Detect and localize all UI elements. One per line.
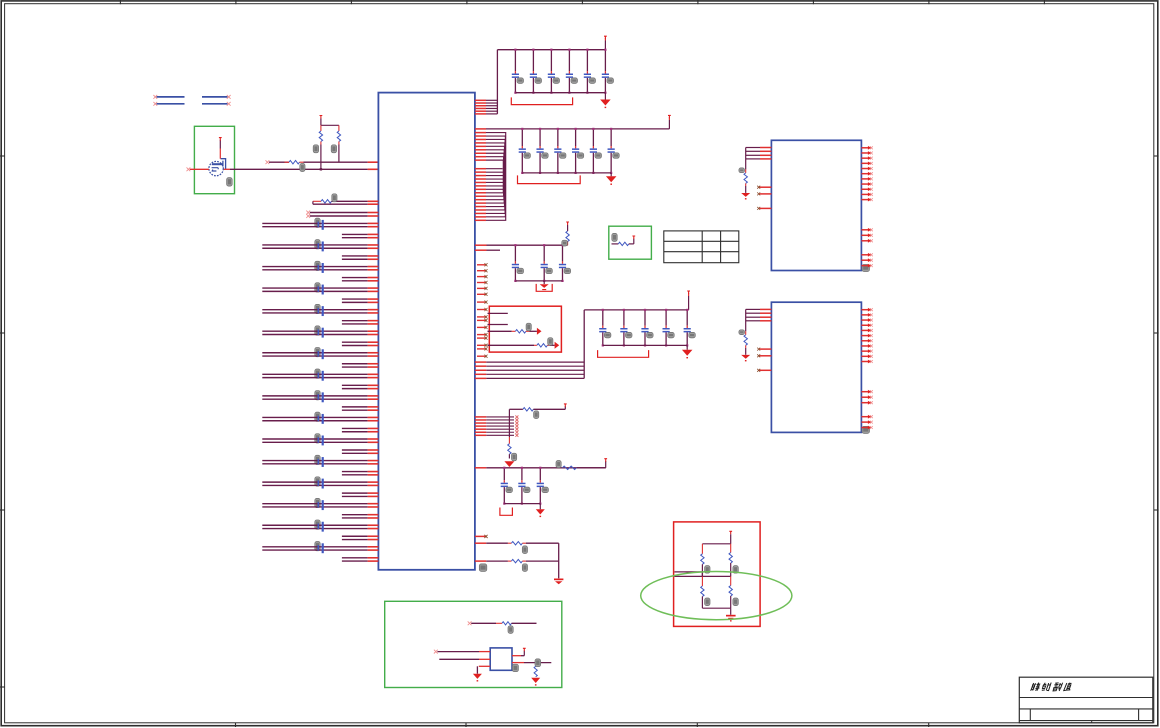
wire short pair Q14 to IC (342, 515, 379, 518)
ground symbol (bar style) (554, 579, 563, 581)
cap bank 4 top bus (584, 309, 688, 311)
red group bracket bank1 (511, 97, 572, 104)
capacitor C16 (bank1) (602, 49, 614, 94)
termination riser wire U2 (745, 148, 747, 170)
wire pair P12 to IC (differential) (262, 461, 378, 464)
left edge zone ticks (0, 156, 5, 687)
pin tick R pair supply (320, 116, 323, 119)
wire R1 to IC pin (net B) (304, 161, 368, 163)
ground arrow bank1 (604, 93, 606, 100)
series capacitor C8 on pair P8 (318, 371, 324, 381)
pin tick R8 net (564, 404, 567, 407)
wire short pair Q16 to IC (342, 558, 379, 561)
ground arrow R14 (531, 678, 540, 683)
wire bundle IC to cap bank 1 (475, 100, 498, 114)
wire short pair Q15 to IC (342, 536, 379, 539)
designator blob C13 (315, 477, 320, 486)
wire with resistor R12 to gnd rail (475, 560, 486, 562)
wire supply to resistor bus (320, 119, 322, 126)
wire supply to divider bus (730, 534, 732, 544)
designator blob C4 (315, 283, 320, 292)
ground arrow termination U2 (741, 193, 750, 197)
wire short pair Q2 to IC (342, 256, 379, 259)
ground bracket with arrow bank3 (543, 281, 545, 284)
series capacitor C16 on pair P16 (318, 543, 324, 553)
pin tick Q1 drain (219, 138, 222, 141)
capacitor C23 (bank2) (554, 128, 566, 174)
wire strap stub 1 (488, 312, 508, 314)
capacitor C12 (bank1) (530, 49, 542, 94)
capacitor C44 (bank4) (663, 309, 675, 347)
designator blob R12 (522, 564, 527, 572)
U2 right pin stubs group 2 (861, 228, 872, 243)
wire Q1 to IC pin (net A) (224, 168, 230, 170)
U3 right pin stubs group 1 (861, 308, 872, 364)
capacitor C25 (bank2) (590, 128, 602, 174)
red highlight box (divider network) (674, 522, 761, 627)
title block frame (1019, 677, 1153, 723)
designator blob C5 (315, 304, 320, 313)
U2 right pin stubs group 1 (861, 146, 872, 202)
capacitor C51 (bank5) (501, 467, 513, 505)
divider top bus (702, 543, 730, 545)
wire pair P5 to IC (differential) (262, 310, 378, 313)
designator blob Q1 (227, 178, 233, 187)
wire resistor R8 row to pin (509, 408, 523, 410)
designator blob R8 (534, 411, 539, 419)
series capacitor C13 on pair P13 (318, 479, 324, 489)
capacitor C21 (bank2) (519, 128, 531, 174)
red group bracket bank2 (518, 175, 581, 183)
top edge zone ticks (120, 0, 1044, 4)
wire with series resistor loopback (top left pair) (313, 200, 321, 202)
wire X1 out to pin (512, 655, 521, 657)
wire pair P13 to IC (differential) (262, 482, 378, 485)
capacitor C11 (bank1) (512, 49, 524, 94)
bank4 left riser wire (583, 310, 585, 379)
cap bank 1 bottom bus (515, 92, 605, 94)
wire short pair Q13 to IC (342, 493, 379, 496)
cap bank 2 bottom bus (522, 172, 611, 174)
wire short pair Q6 to IC (342, 342, 379, 345)
green highlight box around resistor R5 (609, 226, 652, 259)
wire bank2 bus to supply pin (668, 120, 670, 129)
resistor R16 upper-right (730, 544, 732, 553)
capacitor C26 (bank2) (608, 128, 620, 174)
resistor R18 lower-right (730, 576, 732, 585)
designator blob C15 (315, 520, 320, 529)
title block cell divider left (1029, 709, 1031, 721)
designator blob C11 (315, 434, 320, 443)
series capacitor C7 on pair P7 (318, 349, 324, 359)
wire to X1 input 2 (439, 658, 479, 660)
wire pair P15 to IC (differential) (262, 525, 378, 528)
wire short pair Q1 to IC (342, 234, 379, 237)
wire short pair Q12 to IC (342, 472, 379, 475)
capacitor C32 (bank3) (541, 244, 553, 282)
IC U3 body (771, 302, 861, 432)
series capacitor C15 on pair P15 (318, 522, 324, 532)
U3 left pin stubs (757, 348, 771, 372)
designator blob U3 (862, 426, 870, 433)
wire with resistor R11 to gnd rail (475, 542, 486, 544)
wire strap with resistor R6 and arrow (488, 330, 512, 332)
connection table (3x3) (664, 231, 739, 263)
U3 right pin stubs group 3 (861, 415, 872, 430)
wire port to R1 (net B) (269, 161, 289, 163)
wire short pair Q3 to IC (342, 278, 379, 281)
ground arrow bank2 (610, 173, 612, 176)
wire pair P6 to IC (differential) (262, 331, 378, 334)
resistor R17 lower-left (701, 576, 703, 586)
wire group to cap bank 4 (5 nets) (475, 362, 584, 378)
designator blob C1 (315, 218, 320, 227)
port x-mark left b (153, 102, 157, 106)
capacitor C31 (bank3) (512, 244, 524, 282)
port connector pair left (blue) (157, 96, 185, 98)
designator blob R11 (522, 546, 527, 554)
cap bank 3 bottom bus (515, 280, 562, 282)
title block row line 2 (1019, 708, 1153, 710)
designator blob R2 (313, 145, 318, 153)
capacitor C42 (bank4) (620, 309, 632, 347)
series capacitor C10 on pair P10 (318, 414, 324, 424)
resistor R15 upper-left (701, 544, 703, 554)
wire pair P1 to IC (differential) (262, 223, 378, 226)
resistor R14 vertical (534, 666, 537, 677)
designator blob U2 (862, 265, 870, 272)
wire pair P7 to IC (differential) (262, 353, 378, 356)
right edge zone ticks (1154, 156, 1159, 510)
port x-mark net B (266, 160, 270, 164)
wire pair P3 to IC (differential) (262, 267, 378, 270)
title block row line 3 (1019, 720, 1153, 722)
wire pair P16 to IC (differential) (262, 547, 378, 550)
wire pair P10 to IC (differential) (262, 417, 378, 420)
wire short pair Q7 to IC (342, 364, 379, 367)
designator blob R1 (300, 164, 305, 172)
capacitor C41 (bank4) (599, 309, 611, 347)
pin tick R10 net (604, 459, 607, 462)
capacitor C53 (bank5) (537, 467, 549, 505)
junction R2 on net A (320, 168, 322, 170)
designator blob R15 (705, 566, 710, 574)
capacitor C22 (bank2) (536, 128, 548, 174)
red group bracket bank5 (500, 508, 513, 516)
divider mid tap wire (674, 571, 702, 573)
designator blob R3 (331, 145, 336, 153)
designator blob R5 (612, 233, 617, 241)
designator blob C6 (315, 326, 320, 335)
port connector pair right (blue) (202, 96, 228, 98)
IC bundle rows to pulldown (7 pins) (475, 415, 519, 436)
wire short pair Q5 to IC (342, 321, 379, 324)
title block row line 1 (1019, 697, 1153, 699)
designator blob R9 (512, 453, 517, 461)
designator blob C7 (315, 347, 320, 356)
wire short pair with ports (x marks) (310, 212, 368, 214)
series capacitor C4 on pair P4 (318, 285, 324, 295)
series capacitor C9 on pair P9 (318, 392, 324, 402)
resistor R2 (vertical) (320, 125, 322, 131)
title block bottom strip divider (1091, 721, 1093, 723)
designator blob X1 (512, 664, 518, 672)
red group bracket bank4 (598, 350, 649, 357)
pin tick R5 (632, 236, 635, 239)
series capacitor C12 on pair P12 (318, 457, 324, 467)
designator blob U1 bottom-left (479, 564, 487, 572)
pin tick X1 out (523, 648, 526, 651)
wire short pair Q11 to IC (342, 450, 379, 453)
pulldown riser wire (508, 409, 510, 437)
wire bundle IC data rows lower (475, 169, 505, 221)
wire pair P4 to IC (differential) (262, 288, 378, 291)
red highlight box (strap option) (489, 306, 561, 352)
termination resistor U2 (745, 169, 747, 173)
cap bank 1 riser (496, 50, 498, 114)
designator blob R16 (733, 566, 738, 574)
designator blob loopback R (332, 194, 337, 202)
designator blob C12 (315, 455, 320, 464)
wire fan into U3 left (4 nets) (746, 309, 772, 320)
designator blob C14 (315, 498, 320, 507)
designator blob R6 (526, 323, 531, 331)
termination resistor U3 (745, 331, 747, 335)
IC U2 body (771, 140, 861, 270)
wire pair P2 to IC (differential) (262, 245, 378, 248)
designator blob R7 (548, 338, 553, 346)
designator blob termination R U3 (739, 330, 745, 335)
title block cell divider right (1138, 709, 1140, 721)
green emphasis ellipse (641, 572, 792, 620)
bank5 bus wire from IC (475, 467, 486, 469)
port x-mark right b (227, 102, 231, 106)
wire pair P9 to IC (differential) (262, 396, 378, 399)
resistor R3 (vertical) (338, 125, 340, 131)
wire with resistor R13 (468, 621, 472, 625)
resistor R1 (series horizontal) (285, 161, 290, 163)
IC stub pin with x (bottom) (475, 535, 486, 537)
designator blob C16 (315, 542, 320, 551)
series resistor R10 on bank5 net (556, 461, 561, 468)
transistor Q1 (MOSFET) (209, 159, 226, 176)
ground arrow X1 (473, 674, 482, 679)
designator blob C8 (315, 369, 320, 378)
capacitor C33 (bank3) (559, 244, 571, 282)
IC stub pin below bank3 bus (475, 249, 487, 251)
designator blob R4 (562, 240, 568, 246)
wire fan into U2 left (4 nets) (746, 148, 772, 159)
capacitor C52 (bank5) (518, 467, 530, 505)
ground arrow bank5 (539, 504, 541, 510)
ground arrow pulldown (504, 461, 514, 467)
port x-marks short pair (306, 211, 310, 215)
series capacitor C11 on pair P11 (318, 436, 324, 446)
pin tick bank4 supply (687, 291, 690, 294)
wire strap with resistor R7 and arrow (488, 344, 535, 346)
designator blob R17 (705, 598, 710, 606)
cap bank 4 bottom bus (603, 344, 687, 346)
port x-mark left a (153, 95, 157, 99)
termination riser wire U3 (745, 309, 747, 331)
series capacitor C6 on pair P6 (318, 328, 324, 338)
capacitor C24 (bank2) (572, 128, 584, 174)
resistor R5 wire (612, 243, 619, 245)
wire pair P8 to IC (differential) (262, 374, 378, 377)
wire port to Q1 gate (190, 168, 209, 170)
wire short pair Q4 to IC (342, 299, 379, 302)
gnd rail vertical (558, 543, 560, 578)
wire bank4 bus to supply pin (688, 296, 690, 310)
U2 left pin stubs (757, 186, 771, 210)
capacitor C45 (bank4) (684, 309, 696, 347)
pin tick bank1 supply (604, 36, 607, 39)
series capacitor C3 on pair P3 (318, 263, 324, 273)
designator blob R14 (535, 659, 541, 667)
green highlight box (clock circuit) (385, 601, 562, 687)
port x-mark Q1 (187, 167, 191, 171)
wire bundle IC data rows upper (475, 133, 506, 221)
wire pair P14 to IC (differential) (262, 504, 378, 507)
wire bank1 bus to supply pin (604, 41, 606, 50)
ground symbol divider (bar style) (730, 608, 732, 615)
green highlight box around transistor Q1 (194, 126, 234, 193)
wire strap stub 2 (488, 324, 508, 326)
designator blob R18 (733, 598, 738, 606)
wire bank3 bus from IC (475, 244, 487, 246)
IC U1 body (main controller) (378, 93, 475, 570)
series capacitor C2 on pair P2 (318, 241, 324, 251)
crystal X1 (blue square) (490, 648, 512, 670)
wire X1 bottom to ground (479, 665, 490, 667)
resistor R9 pulldown (508, 437, 510, 444)
series capacitor C5 on pair P5 (318, 306, 324, 316)
cap bank 2 bus wire from IC (475, 128, 486, 130)
designator blob C3 (315, 261, 320, 270)
ground arrow bank4 (686, 345, 688, 349)
series capacitor C14 on pair P14 (318, 500, 324, 510)
designator blob R13 (508, 626, 513, 634)
resistor R4 vertical to pin (566, 222, 569, 225)
wire pair P11 to IC (differential) (262, 439, 378, 442)
pin tick divider supply (729, 531, 732, 534)
pin tick bank2 supply (668, 115, 671, 118)
wire Q1 drain up to pin (219, 149, 221, 159)
port x-mark right a (227, 95, 231, 99)
bottom edge zone ticks (236, 723, 929, 727)
designator blob C10 (315, 412, 320, 421)
designator blob C2 (315, 240, 320, 249)
capacitor C43 (bank4) (641, 309, 653, 347)
cap bank 1 top bus (497, 49, 605, 51)
series capacitor C1 on pair P1 (318, 220, 324, 230)
wire short pair Q10 to IC (342, 428, 379, 431)
ground arrow termination U3 (741, 355, 750, 359)
wire short pair Q9 to IC (342, 407, 379, 410)
wire to X1 input 1 (434, 650, 438, 654)
wire X1 out 2 with resistor R14 to ground (512, 662, 524, 664)
IC no-connect pin stubs column (left of red box) (477, 263, 488, 358)
designator blob termination R U2 (739, 168, 745, 173)
company name text (CJK calligraphic) (1031, 683, 1073, 691)
U3 right pin stubs group 2 (861, 390, 872, 405)
designator blob C9 (315, 391, 320, 400)
resistor bus top wire (321, 124, 339, 126)
capacitor C15 (bank1) (584, 49, 596, 94)
U2 right pin stubs group 3 (861, 253, 872, 268)
capacitor C13 (bank1) (548, 49, 560, 94)
cap bank 5 bottom bus (504, 503, 540, 505)
capacitor C14 (bank1) (566, 49, 578, 94)
divider bottom bus (702, 607, 730, 609)
wire short pair Q8 to IC (342, 385, 379, 388)
